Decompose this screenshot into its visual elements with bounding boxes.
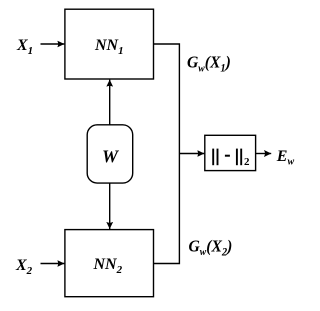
svg-text:W: W xyxy=(102,147,120,167)
box norm xyxy=(205,135,256,170)
wire X1 arrow into NN1 xyxy=(41,43,65,45)
box NN1 xyxy=(65,9,154,79)
norm dash xyxy=(225,155,230,157)
wire W to NN1 (arrow up) xyxy=(109,80,111,125)
svg-text:2: 2 xyxy=(244,156,250,168)
box W (rounded) xyxy=(87,125,133,183)
wire NN1 output to trunk xyxy=(154,44,180,154)
wire norm box output arrow xyxy=(256,153,272,155)
wire X2 arrow into NN2 xyxy=(41,263,65,265)
norm bars right xyxy=(236,149,238,166)
wire trunk to norm box (arrow) xyxy=(179,153,204,155)
wire W to NN2 (arrow down) xyxy=(109,183,111,229)
norm bars left xyxy=(212,149,214,166)
box NN2 xyxy=(65,230,154,297)
wire NN2 output to trunk xyxy=(154,154,180,264)
